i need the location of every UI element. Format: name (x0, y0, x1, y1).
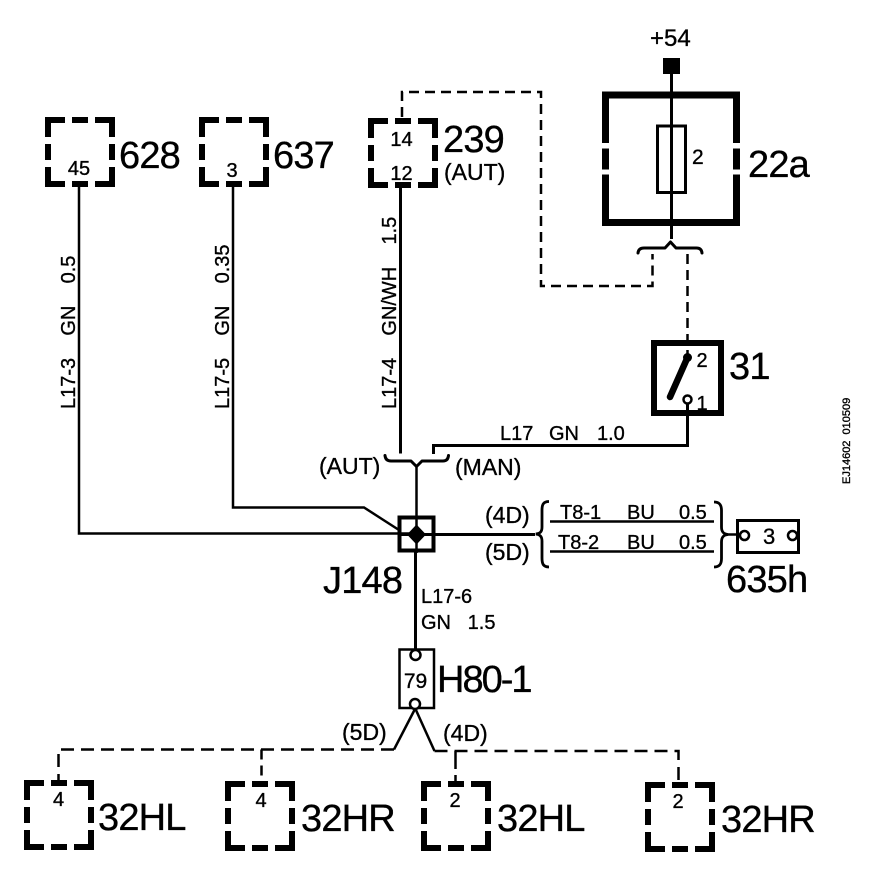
svg-text:3: 3 (226, 160, 237, 182)
wire junction to T8 brace (399, 533, 535, 536)
svg-text:635h: 635h (726, 559, 807, 601)
svg-text:79: 79 (404, 670, 427, 693)
svg-text:L17-5 GN 0.35: L17-5 GN 0.35 (212, 244, 234, 409)
wire split (5D) left branch (394, 709, 415, 750)
wire T8-1 BU 0.5 (550, 520, 714, 523)
switch pin 2 dot (683, 353, 692, 362)
wire from brace to junction J148 (415, 467, 418, 554)
switch 31 (654, 343, 770, 415)
brace left of T8 wires (536, 502, 549, 568)
terminal +54 (650, 25, 691, 74)
svg-text:45: 45 (68, 158, 90, 180)
dashed stub to 32HR pin4 (260, 750, 263, 788)
svg-text:GN 1.5: GN 1.5 (421, 612, 495, 634)
svg-text:239: 239 (443, 119, 504, 161)
svg-text:2: 2 (449, 790, 460, 812)
lamp connector 32HL (4) (27, 783, 186, 847)
wire L17 GN 1.0 from switch pin1 to (MAN) (434, 404, 688, 455)
svg-text:32HL: 32HL (497, 798, 585, 840)
svg-text:1: 1 (697, 393, 708, 415)
wire T8-2 BU 0.5 (550, 550, 714, 553)
svg-text:4: 4 (255, 790, 266, 812)
svg-text:22a: 22a (748, 144, 811, 186)
svg-text:32HR: 32HR (301, 798, 395, 840)
connector 635h (726, 521, 807, 602)
svg-text:(4D): (4D) (443, 720, 488, 746)
svg-text:L17GN1.0: L17GN1.0 (500, 423, 625, 445)
svg-text:(5D): (5D) (485, 539, 530, 565)
switch lever (670, 358, 688, 398)
svg-text:T8-1BU0.5: T8-1BU0.5 (560, 502, 707, 524)
switch pin 1 circle (684, 396, 692, 404)
wire L17-3 GN 0.5 from 628 to junction (79, 184, 416, 534)
brace under fuse box (638, 242, 702, 253)
bulb H80-1 (400, 650, 532, 710)
svg-text:L17-4 GN/WH 1.5: L17-4 GN/WH 1.5 (379, 217, 401, 409)
svg-text:2: 2 (697, 350, 708, 372)
svg-text:637: 637 (273, 135, 334, 177)
svg-text:32HL: 32HL (98, 797, 186, 839)
wire brace to 635h (728, 533, 740, 536)
brace (AUT)/(MAN) (385, 456, 449, 467)
fuse holder box 22a (602, 92, 740, 227)
svg-text:14: 14 (390, 129, 412, 151)
lamp connector 32HR (2) (648, 785, 815, 849)
fuse 2 (658, 126, 704, 193)
svg-text:3: 3 (763, 524, 775, 549)
svg-text:EJ14602 010509: EJ14602 010509 (841, 398, 853, 484)
svg-text:12: 12 (390, 163, 412, 185)
wire split (4D) right branch (416, 709, 435, 751)
connector 637 (202, 120, 334, 184)
wire L17-6 GN 1.5 junction to H80-1 (414, 551, 417, 650)
svg-text:+54: +54 (650, 25, 691, 52)
svg-text:(5D): (5D) (342, 719, 387, 745)
connector 628 (48, 120, 180, 184)
dashed bus (4D) to 32HL/32HR right (435, 751, 679, 788)
svg-text:628: 628 (119, 135, 180, 177)
svg-text:J148: J148 (323, 560, 402, 602)
svg-text:31: 31 (729, 346, 770, 388)
svg-text:32HR: 32HR (721, 799, 815, 841)
svg-text:2: 2 (692, 146, 704, 169)
svg-text:(AUT): (AUT) (444, 159, 505, 185)
junction J148 (323, 518, 434, 603)
wire L17-5 GN 0.35 from 637 to junction (233, 184, 399, 530)
dashed wire brace to switch 31 pin2 (686, 254, 689, 354)
svg-text:L17-3 GN 0.5: L17-3 GN 0.5 (58, 256, 80, 409)
svg-text:H80-1: H80-1 (437, 659, 531, 701)
svg-text:(AUT): (AUT) (319, 453, 380, 479)
dashed bus (5D) to 32HL/32HR left (59, 750, 395, 787)
stub to 32HL pin2 (454, 751, 457, 786)
svg-text:(MAN): (MAN) (455, 454, 521, 480)
svg-text:2: 2 (672, 791, 683, 813)
svg-text:4: 4 (53, 789, 64, 811)
svg-text:(4D): (4D) (485, 502, 530, 528)
lamp connector 32HR (4) (228, 784, 395, 848)
lamp connector 32HL (2) (424, 784, 585, 848)
connector 239 (371, 119, 505, 185)
dashed wire 239 pin14 to brace under 22a (402, 92, 653, 286)
wire from +54 through fuse to brace (670, 74, 673, 239)
svg-text:L17-6: L17-6 (421, 586, 472, 608)
wire L17-4 GN/WH 1.5 from 239 pin12 to brace (399, 185, 402, 454)
brace right of T8 wires (714, 502, 728, 567)
svg-text:T8-2BU0.5: T8-2BU0.5 (558, 532, 707, 554)
